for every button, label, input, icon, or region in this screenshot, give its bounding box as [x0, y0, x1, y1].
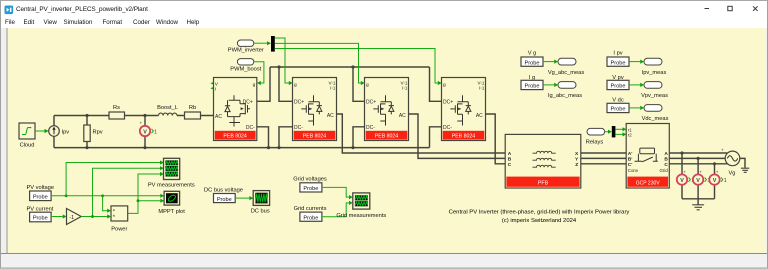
svg-text:Grid voltages: Grid voltages: [293, 177, 327, 183]
wire: phase B from PEB3 AC to PFB: [409, 114, 506, 158]
wire: PFB Y to GCP B': [581, 157, 626, 159]
svg-text:Probe: Probe: [525, 60, 540, 66]
svg-text:DC-: DC-: [294, 125, 303, 131]
svg-text:g: g: [366, 83, 369, 88]
svg-text:Conv: Conv: [628, 168, 639, 173]
wire: voltmeter Vm1 stubs: [144, 116, 146, 148]
svg-text:I›1: I›1: [479, 85, 485, 90]
wire: Rpv stubs: [86, 116, 88, 148]
wire: gate signal to PEB3: [275, 43, 362, 83]
wire: I g to tag: [543, 84, 554, 86]
svg-text:-1: -1: [69, 215, 74, 221]
tag Relays: [586, 128, 605, 145]
wire: voltmeter Vm3 stubs: [697, 158, 699, 198]
ground under voltmeters: [692, 205, 704, 210]
scope DC bus: [251, 191, 270, 215]
scope MPPT plot: [158, 191, 185, 215]
voltmeter Vm1: [140, 120, 158, 136]
probe DC bus voltage: [204, 188, 243, 203]
voltmeter Vm2: [677, 169, 694, 184]
svg-text:V dc: V dc: [612, 98, 624, 104]
svg-text:Rb: Rb: [189, 105, 196, 111]
source block Cloud: [19, 123, 35, 149]
caption annotation: [449, 210, 630, 224]
svg-text:I pv: I pv: [613, 51, 622, 57]
svg-text:1: 1: [154, 129, 157, 135]
wire: phase A from PEB2 AC to PFB: [337, 114, 506, 153]
wire: relay signal r2: [615, 133, 622, 135]
demux for gate signals: [271, 36, 275, 52]
tag Ig_abc_meas: [548, 82, 582, 100]
svg-text:Probe: Probe: [611, 60, 626, 66]
wire: voltmeter Vm4 stubs: [714, 164, 716, 199]
wire: Grid currents to scope: [322, 203, 349, 217]
svg-text:A: A: [664, 151, 668, 157]
svg-text:PV voltage: PV voltage: [27, 185, 55, 191]
svg-text:g: g: [253, 83, 256, 88]
transistor and diode icon: [450, 95, 471, 125]
wire: gain output to Power and scope: [81, 168, 160, 216]
wire: voltmeter Vm2 stubs: [681, 153, 683, 199]
svg-text:B: B: [664, 157, 668, 163]
multiplier block Power: [111, 206, 128, 233]
svg-text:AC: AC: [399, 113, 406, 119]
wire: DC- bottom bus: [54, 147, 430, 149]
wire: PFB Z to GCP C': [581, 163, 626, 165]
probe PV current: [27, 207, 54, 222]
converter block PEB2 (inverter leg A): [293, 78, 337, 141]
inductor Boost_L: [158, 113, 176, 115]
svg-text:PWM_boost: PWM_boost: [230, 67, 261, 73]
scope PV measurements: [148, 158, 195, 188]
svg-text:PWM_inverter: PWM_inverter: [228, 48, 264, 54]
svg-text:g: g: [443, 83, 446, 88]
svg-text:B: B: [508, 157, 512, 163]
svg-text:Relays: Relays: [586, 139, 604, 145]
wire: PWM_inverter to demux: [254, 42, 268, 44]
probe V pv: [607, 75, 629, 90]
svg-text:+: +: [699, 169, 702, 174]
wire: ground stem under voltmeters: [697, 199, 699, 205]
current source Ipv: [49, 126, 70, 137]
svg-text:MPPT plot: MPPT plot: [158, 209, 185, 215]
tag PWM_boost: [230, 59, 261, 73]
svg-text:+: +: [140, 120, 143, 125]
converter block PEB1 (boost): [210, 78, 256, 141]
svg-text:r2: r2: [628, 133, 632, 138]
wire: GCP A to grid source: [669, 152, 727, 154]
svg-text:Boost_L: Boost_L: [157, 105, 178, 111]
svg-text:V g: V g: [528, 51, 537, 57]
wire: GCP C to grid source: [669, 163, 727, 165]
voltmeter Vm4: [709, 169, 726, 184]
svg-text:PEB 8024: PEB 8024: [452, 134, 475, 140]
tag Vg_abc_meas: [548, 58, 585, 76]
wire: DC+ bus: [270, 66, 430, 68]
wire: PFB X to GCP A': [581, 152, 626, 154]
wire: DC+ drop to PEB2: [279, 67, 293, 101]
wire: DC bus voltage to scope: [235, 197, 249, 199]
svg-text:DC-: DC-: [246, 125, 255, 131]
svg-text:Ipv: Ipv: [62, 130, 70, 136]
svg-text:DC bus voltage: DC bus voltage: [204, 188, 243, 194]
wire: gate signal to PEB4: [275, 49, 439, 84]
svg-text:DC bus: DC bus: [251, 208, 270, 214]
voltmeter Vm3: [693, 169, 710, 184]
svg-text:Probe: Probe: [217, 197, 232, 203]
svg-text:I›1: I›1: [402, 85, 408, 90]
svg-text:Ig_abc_meas: Ig_abc_meas: [548, 93, 582, 99]
ground at grid source: [741, 168, 749, 172]
svg-text:Z: Z: [575, 162, 578, 168]
svg-text:Probe: Probe: [525, 84, 540, 90]
probe Grid currents: [294, 206, 327, 222]
probe I g: [521, 75, 543, 90]
tag Ipv_meas: [642, 58, 667, 76]
converter block PEB4 (inverter leg C): [442, 78, 486, 141]
svg-text:Vpv_meas: Vpv_meas: [641, 93, 668, 99]
resistor Rb: [185, 105, 201, 119]
scope Grid measurements: [336, 193, 386, 219]
probe V dc: [607, 98, 629, 113]
svg-text:+: +: [716, 169, 719, 174]
grid voltage source Vg: [721, 147, 740, 176]
svg-text:(c) imperix Switzerland 2024: (c) imperix Switzerland 2024: [502, 218, 577, 224]
contactor symbol: [635, 148, 658, 162]
wire: PEB3 DC- to bus: [353, 127, 365, 148]
transistor and diode icon: [301, 95, 322, 125]
svg-text:Grid measurements: Grid measurements: [336, 213, 386, 219]
svg-text:Grid currents: Grid currents: [294, 206, 327, 212]
gain block -1: [67, 209, 82, 225]
svg-text:Grid: Grid: [660, 168, 669, 173]
wire: relay signal r1: [615, 128, 622, 130]
wire: Cloud to Ipv (signal): [35, 130, 46, 132]
PLECS app icon: [0, 1, 18, 17]
svg-text:Power: Power: [111, 227, 127, 233]
wire: DC+ drop to PEB3: [353, 67, 365, 101]
svg-text:DC-: DC-: [366, 125, 375, 131]
wire: PV voltage signal to MPPT/Power/scope: [51, 163, 160, 211]
wire: V dc to tag: [629, 107, 640, 109]
svg-text:B': B': [628, 157, 633, 163]
tag Vpv_meas: [641, 82, 668, 100]
svg-text:A: A: [508, 151, 512, 157]
resistor Rpv: [84, 125, 103, 142]
wire: Relays to demux: [605, 131, 609, 133]
svg-text:1: 1: [724, 178, 727, 184]
svg-text:I: I: [215, 87, 216, 93]
wire: PEB1 DC- to bus: [257, 127, 269, 148]
svg-text:GCP 230V: GCP 230V: [636, 181, 660, 187]
resistor Rs: [109, 105, 125, 119]
window buttons: [688, 1, 768, 17]
svg-text:Vg: Vg: [729, 171, 736, 177]
svg-text:Central PV Inverter (three-pha: Central PV Inverter (three-phase, grid-t…: [449, 210, 630, 216]
svg-text:V: V: [713, 178, 717, 184]
tag Vdc_meas: [642, 105, 669, 123]
transistor and diode icon: [373, 95, 394, 125]
svg-text:A': A': [628, 151, 633, 157]
svg-text:Probe: Probe: [33, 216, 48, 222]
wire: V g to tag: [543, 61, 554, 63]
svg-text:PEB 8024: PEB 8024: [223, 134, 246, 140]
wire: grid source to ground: [740, 158, 745, 167]
svg-text:AC: AC: [327, 113, 334, 119]
svg-text:DC+: DC+: [294, 100, 304, 106]
svg-text:Probe: Probe: [611, 107, 626, 113]
transistor and diode icon: [225, 95, 250, 126]
svg-text:AC: AC: [476, 113, 483, 119]
signal junction dots: [65, 194, 140, 218]
svg-text:g: g: [294, 83, 297, 88]
wire: PEB1 DC+ to top DC+ bus: [257, 67, 270, 101]
demux for relay signals: [612, 126, 616, 137]
probe I pv: [607, 51, 629, 67]
svg-text:V: V: [143, 130, 147, 136]
wire: gate signal to PEB2: [275, 38, 290, 83]
transformer windings: [533, 151, 556, 167]
svg-text:V: V: [680, 178, 684, 184]
wire: Grid voltages to scope: [322, 187, 349, 197]
svg-text:V: V: [696, 178, 700, 184]
svg-text:Rs: Rs: [113, 105, 120, 111]
svg-text:DC+: DC+: [366, 100, 376, 106]
probe Grid voltages: [293, 177, 327, 193]
svg-text:+: +: [683, 169, 686, 174]
wire: DC+ drop to PEB4: [430, 67, 442, 101]
grid connection block GCP 230V: [626, 124, 669, 189]
svg-text:Probe: Probe: [611, 84, 626, 90]
svg-text:Probe: Probe: [33, 195, 48, 201]
wire: voltmeter common rail: [682, 198, 715, 200]
svg-text:C: C: [508, 162, 512, 168]
svg-text:Vdc_meas: Vdc_meas: [642, 116, 669, 122]
svg-text:PV measurements: PV measurements: [148, 182, 195, 188]
wire: I pv to tag: [629, 61, 640, 63]
wire: Ipv vertical stubs: [53, 116, 55, 148]
svg-text:DC+: DC+: [443, 100, 453, 106]
probe V g: [521, 51, 543, 67]
wire: PV current to gain: [51, 216, 63, 218]
wire: PWM_boost to PEB1 gate: [254, 62, 264, 83]
svg-text:Rpv: Rpv: [93, 130, 103, 136]
svg-text:Ipv_meas: Ipv_meas: [642, 70, 667, 76]
wire: Power output to MPPT and scope: [128, 174, 161, 213]
svg-text:AC: AC: [215, 114, 222, 120]
svg-text:Vg_abc_meas: Vg_abc_meas: [548, 70, 585, 76]
probe PV voltage: [27, 185, 55, 201]
junction node dots: [85, 65, 716, 165]
wire: phase C from PEB4 AC to PFB: [486, 114, 506, 164]
svg-text:PEB 8024: PEB 8024: [375, 134, 398, 140]
wire: PEB2 DC- to bus: [279, 127, 293, 148]
transformer block PFB: [505, 134, 581, 188]
svg-text:r1: r1: [628, 127, 632, 132]
wire: V pv to tag: [629, 84, 640, 86]
tag PWM_inverter: [228, 40, 264, 54]
svg-text:PEB 8024: PEB 8024: [303, 134, 326, 140]
svg-text:DC-: DC-: [443, 125, 452, 131]
wire: PEB4 DC- to bus: [430, 127, 442, 148]
svg-text:+: +: [721, 147, 724, 152]
svg-text:DC+: DC+: [243, 100, 253, 106]
svg-text:Probe: Probe: [303, 186, 318, 192]
wire: GCP B to grid source: [669, 157, 725, 159]
converter block PEB3 (inverter leg B): [365, 78, 409, 141]
svg-text:I›1: I›1: [330, 85, 336, 90]
svg-text:PFB: PFB: [538, 181, 549, 187]
svg-text:Cloud: Cloud: [20, 143, 35, 149]
wire: top PV rail from Ipv to PEB1 AC: [54, 115, 214, 117]
svg-text:Probe: Probe: [303, 215, 318, 221]
